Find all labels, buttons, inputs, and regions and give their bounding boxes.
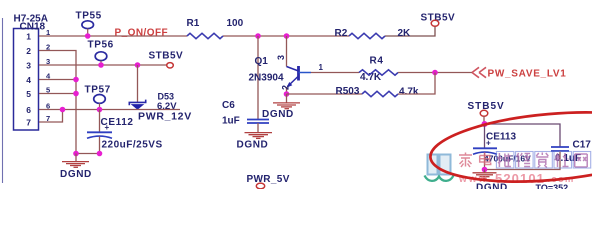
junction pin5 bbox=[73, 91, 79, 97]
diode D53 zener bbox=[129, 92, 177, 113]
resistor R2 bbox=[335, 28, 412, 39]
svg-text:6: 6 bbox=[26, 105, 31, 115]
wire R4 to arrow bbox=[398, 72, 472, 74]
svg-text:2K: 2K bbox=[398, 28, 412, 39]
ground emitter DGND bbox=[262, 94, 300, 120]
junction TP56 bbox=[98, 62, 104, 68]
transistor Q1 bbox=[249, 36, 312, 94]
connector CN18 bbox=[14, 14, 48, 131]
emitter wire bbox=[286, 87, 288, 94]
char 1 bbox=[459, 153, 472, 168]
svg-text:P_ON/OFF: P_ON/OFF bbox=[115, 28, 169, 39]
collector diagonal bbox=[287, 67, 299, 72]
svg-text:2: 2 bbox=[281, 85, 291, 90]
wire pin5 stub bbox=[39, 93, 76, 95]
svg-text:4: 4 bbox=[26, 75, 31, 85]
junction bus right bbox=[97, 151, 103, 157]
testpoint TP56 bbox=[88, 40, 114, 66]
svg-text:1: 1 bbox=[26, 32, 31, 42]
power STB5V mid bbox=[149, 51, 184, 69]
watermark url bbox=[458, 171, 574, 186]
port arrow PW_SAVE_LV1 bbox=[472, 67, 567, 79]
svg-text:R4: R4 bbox=[370, 56, 384, 67]
svg-text:1uF: 1uF bbox=[222, 116, 240, 127]
node C6 junction bbox=[255, 33, 261, 39]
resistor R4 bbox=[359, 56, 398, 84]
svg-text:TP56: TP56 bbox=[88, 40, 114, 51]
wire ground bus bbox=[76, 153, 100, 155]
svg-text:C6: C6 bbox=[222, 100, 235, 111]
pin net number labels bbox=[46, 28, 51, 123]
svg-text:+: + bbox=[486, 139, 491, 148]
svg-text:STB5V: STB5V bbox=[149, 51, 184, 62]
power STB5V top right bbox=[421, 13, 456, 27]
power STB5V bottom bbox=[468, 101, 505, 124]
svg-text:DGND: DGND bbox=[60, 169, 92, 180]
ground C6 DGND bbox=[237, 133, 273, 151]
wire R503 net bbox=[287, 93, 363, 95]
watermark book icon bbox=[425, 155, 454, 181]
svg-text:CN18: CN18 bbox=[20, 22, 46, 33]
page border line bbox=[2, 18, 4, 183]
junction STB5V node bbox=[482, 121, 488, 127]
svg-text:Q1: Q1 bbox=[255, 56, 269, 67]
svg-text:4.7k: 4.7k bbox=[399, 87, 419, 98]
wire pin1 main net bbox=[39, 35, 187, 37]
wire pin4 stub bbox=[39, 79, 76, 81]
capacitor C6 bbox=[222, 100, 269, 132]
capacitor C17 bbox=[485, 140, 592, 170]
wire to C17 branch bbox=[485, 124, 561, 147]
junction emitter node bbox=[284, 91, 290, 97]
svg-text:PWR_5V: PWR_5V bbox=[247, 174, 290, 185]
junction D53 branch bbox=[135, 62, 141, 68]
svg-text:220uF/25VS: 220uF/25VS bbox=[102, 140, 163, 151]
svg-text:DGND: DGND bbox=[262, 109, 294, 120]
junction bus left bbox=[73, 151, 79, 157]
emitter diagonal bbox=[288, 76, 299, 87]
wire R2 to STB5V corner bbox=[385, 26, 435, 36]
svg-text:3: 3 bbox=[26, 61, 31, 71]
base lead bbox=[299, 72, 312, 74]
svg-text:100: 100 bbox=[227, 18, 244, 29]
svg-text:C17: C17 bbox=[573, 140, 592, 151]
annotation red ellipse bbox=[428, 104, 592, 191]
char 5 bbox=[536, 153, 548, 168]
wire pin6 net PWR_12V bbox=[39, 109, 180, 111]
wire R503 to junction bbox=[398, 73, 435, 95]
ground DGND bottom right bbox=[473, 170, 508, 194]
watermark chinese characters bbox=[459, 153, 587, 168]
svg-text:R1: R1 bbox=[187, 18, 200, 29]
collector wire bbox=[286, 36, 288, 67]
junction pin4 bbox=[73, 77, 79, 83]
char 3 bbox=[497, 153, 511, 167]
resistor R503 bbox=[336, 86, 419, 98]
svg-text:1: 1 bbox=[319, 63, 324, 72]
svg-text:PW_SAVE_LV1: PW_SAVE_LV1 bbox=[488, 69, 567, 80]
power PWR_5V bbox=[247, 174, 290, 189]
svg-text:2N3904: 2N3904 bbox=[249, 73, 284, 84]
svg-text:7: 7 bbox=[26, 118, 31, 128]
svg-text:4700uF/16V: 4700uF/16V bbox=[484, 154, 531, 164]
svg-text:5: 5 bbox=[26, 89, 31, 99]
char 7 bbox=[575, 154, 588, 167]
junction TP55 bbox=[85, 33, 91, 39]
capacitor CE113 bbox=[473, 124, 531, 170]
junction pin7 bbox=[60, 107, 66, 113]
svg-text:+: + bbox=[105, 123, 110, 132]
wire pin2 stub and bus bbox=[39, 51, 76, 154]
testpoint TP55 bbox=[76, 11, 102, 37]
node Q1 collector junction bbox=[284, 33, 290, 39]
svg-text:PWR_12V: PWR_12V bbox=[138, 111, 192, 123]
wire R1 to R2 bbox=[223, 35, 349, 37]
junction CE113 bottom bbox=[482, 167, 488, 173]
wire C6 branch bbox=[257, 36, 259, 119]
testpoint TP57 bbox=[85, 85, 111, 110]
wire pin7 stub bbox=[39, 110, 63, 123]
ground DGND left bbox=[60, 154, 92, 181]
svg-text:TP55: TP55 bbox=[76, 11, 102, 22]
svg-text:R503: R503 bbox=[336, 86, 360, 97]
svg-text:R2: R2 bbox=[335, 28, 348, 39]
wire base to R4 bbox=[311, 72, 359, 74]
svg-text:2: 2 bbox=[26, 46, 31, 56]
svg-text:DGND: DGND bbox=[237, 140, 269, 151]
resistor R1 bbox=[187, 18, 244, 39]
junction TP57 bbox=[97, 107, 103, 113]
wire D53 branch bbox=[137, 65, 139, 102]
svg-text:D53: D53 bbox=[158, 92, 175, 102]
svg-text:520101: 520101 bbox=[495, 171, 545, 186]
watermark char boxes bbox=[496, 152, 590, 169]
capacitor CE112 bbox=[87, 110, 163, 154]
base bar bbox=[297, 66, 300, 81]
char 4 bbox=[517, 153, 531, 167]
char 6 bbox=[555, 153, 569, 167]
junction R4/R503 node bbox=[432, 70, 438, 76]
char 2 bbox=[480, 153, 491, 165]
wire pin3 net STB5V bbox=[39, 64, 167, 66]
svg-text:3: 3 bbox=[276, 55, 286, 60]
